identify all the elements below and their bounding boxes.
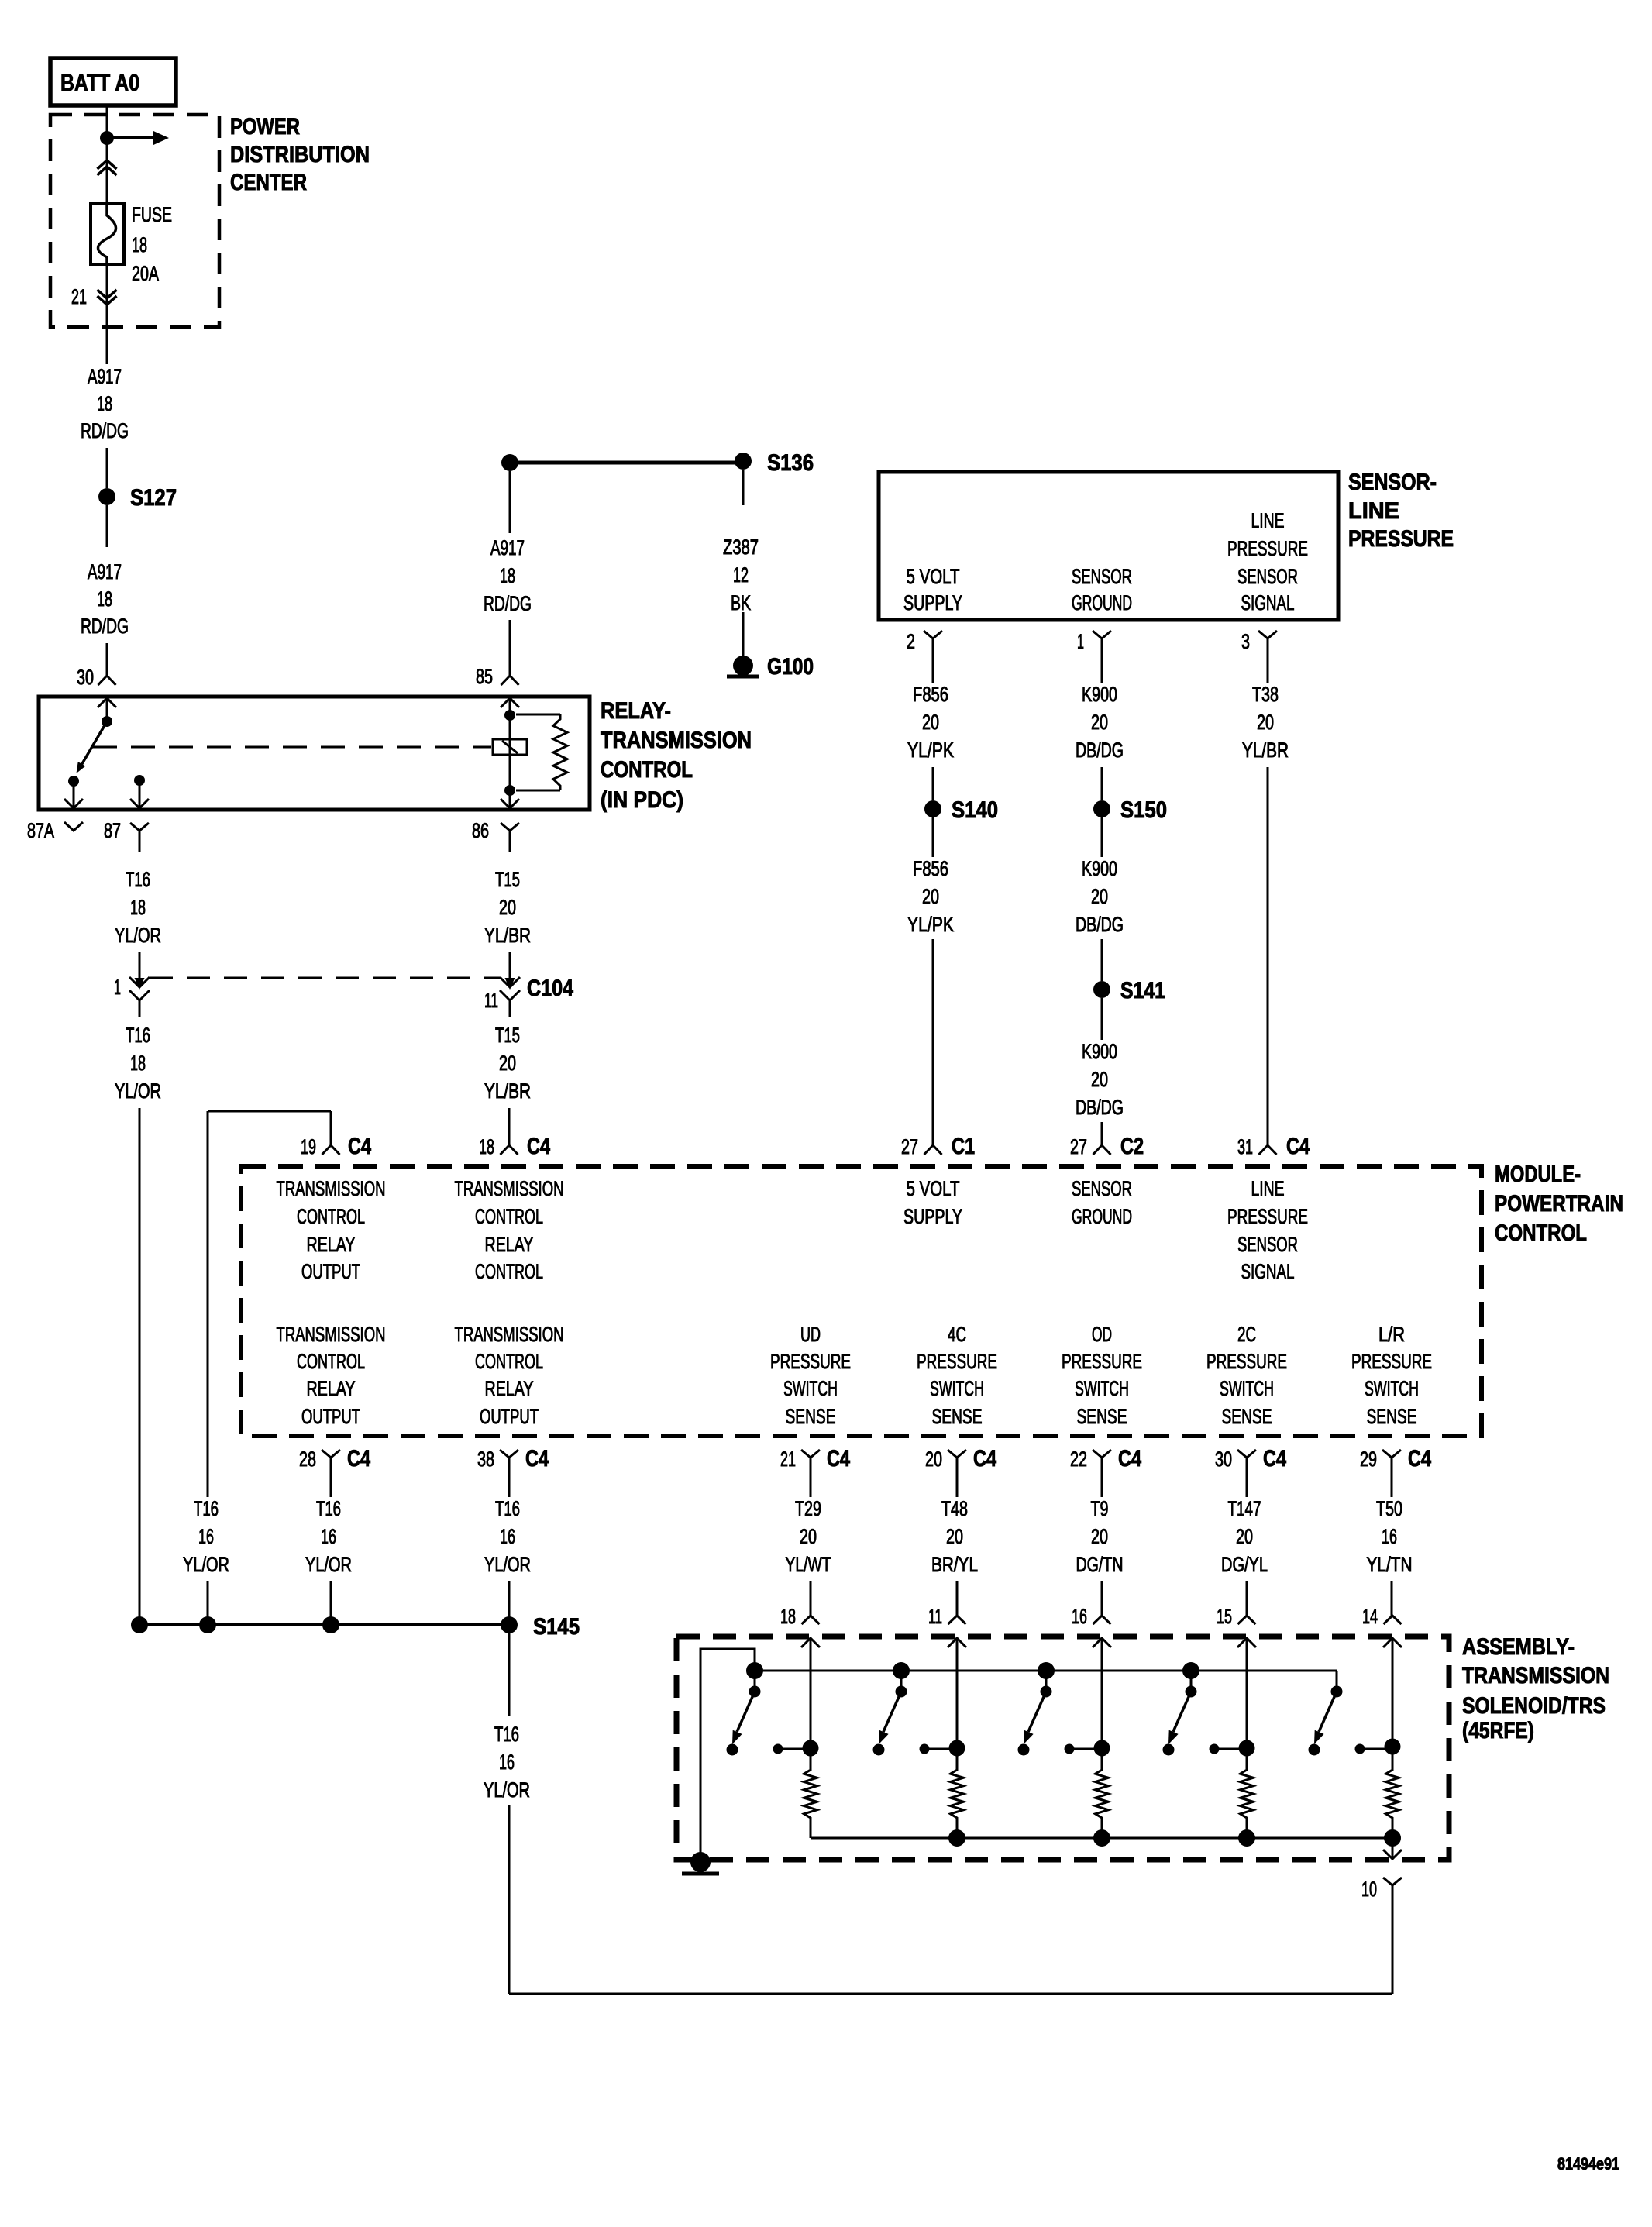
node junction branch wire bbox=[199, 1616, 216, 1633]
svg-text:PRESSURE: PRESSURE bbox=[1351, 1350, 1432, 1373]
svg-text:MODULE-: MODULE- bbox=[1495, 1162, 1581, 1187]
label MODULE-POWERTRAIN CONTROL bbox=[1495, 1162, 1623, 1246]
pin 1 of sensor bbox=[1077, 630, 1111, 659]
svg-text:A917: A917 bbox=[490, 536, 525, 559]
wire F856 20 YL/PK lower bbox=[907, 817, 954, 1145]
svg-text:RELAY: RELAY bbox=[485, 1233, 534, 1256]
svg-text:20: 20 bbox=[1091, 885, 1108, 908]
svg-text:SENSE: SENSE bbox=[1367, 1405, 1417, 1428]
svg-text:LINE: LINE bbox=[1348, 498, 1399, 524]
svg-text:TRANSMISSION: TRANSMISSION bbox=[455, 1177, 564, 1200]
svg-text:F856: F856 bbox=[913, 857, 948, 880]
svg-text:TRANSMISSION: TRANSMISSION bbox=[455, 1323, 564, 1346]
relay coil linkage bbox=[93, 746, 491, 749]
svg-text:PRESSURE: PRESSURE bbox=[1062, 1350, 1142, 1373]
svg-text:RD/DG: RD/DG bbox=[81, 419, 129, 442]
resistor OD switch bbox=[1096, 1748, 1109, 1838]
pin 18 of TRS bbox=[780, 1605, 820, 1628]
relay transmission control box bbox=[39, 697, 590, 810]
pin 87 of relay bbox=[104, 819, 149, 852]
svg-text:CENTER: CENTER bbox=[230, 170, 307, 195]
svg-text:T15: T15 bbox=[495, 1024, 520, 1047]
pin 27 C2 of PCM bbox=[1070, 1134, 1144, 1159]
svg-text:PRESSURE: PRESSURE bbox=[1348, 526, 1454, 552]
label 81494e91 bbox=[1557, 2154, 1619, 2174]
svg-text:5 VOLT: 5 VOLT bbox=[907, 1177, 960, 1200]
svg-text:S136: S136 bbox=[767, 450, 814, 476]
svg-text:LINE: LINE bbox=[1251, 1177, 1285, 1200]
svg-text:20: 20 bbox=[1091, 711, 1108, 734]
pin 28 C4 of PCM bbox=[299, 1446, 370, 1486]
svg-text:PRESSURE: PRESSURE bbox=[1227, 537, 1308, 560]
svg-text:16: 16 bbox=[499, 1750, 515, 1774]
svg-text:CONTROL: CONTROL bbox=[297, 1350, 365, 1373]
svg-text:PRESSURE: PRESSURE bbox=[770, 1350, 851, 1373]
svg-text:BK: BK bbox=[731, 591, 751, 614]
resistor 4C switch bbox=[951, 1748, 964, 1838]
svg-text:F856: F856 bbox=[913, 683, 948, 706]
svg-text:OD: OD bbox=[1092, 1323, 1112, 1346]
svg-text:16: 16 bbox=[1072, 1605, 1087, 1628]
power distribution center box bbox=[50, 115, 219, 327]
svg-text:YL/OR: YL/OR bbox=[484, 1778, 530, 1802]
wire C104 tie bbox=[150, 977, 500, 979]
svg-text:PRESSURE: PRESSURE bbox=[1227, 1205, 1308, 1228]
label ASSEMBLY-TRANSMISSION SOLENOID/TRS (45RFE) bbox=[1462, 1634, 1609, 1743]
svg-text:15: 15 bbox=[1217, 1605, 1232, 1628]
svg-text:16: 16 bbox=[198, 1525, 214, 1548]
pin 11 of TRS bbox=[928, 1605, 966, 1628]
svg-text:CONTROL: CONTROL bbox=[475, 1260, 543, 1283]
label UD pressure switch sense in PCM bbox=[770, 1323, 851, 1428]
wire S136 tie bbox=[510, 461, 743, 465]
relay coil terminal 86 bbox=[501, 785, 519, 808]
svg-text:SIGNAL: SIGNAL bbox=[1241, 1260, 1295, 1283]
node OD switch contact bbox=[1018, 1744, 1030, 1756]
svg-text:(IN PDC): (IN PDC) bbox=[601, 787, 683, 813]
svg-text:OUTPUT: OUTPUT bbox=[301, 1260, 360, 1283]
svg-text:SUPPLY: SUPPLY bbox=[903, 591, 962, 614]
svg-text:YL/OR: YL/OR bbox=[484, 1553, 531, 1576]
relay common terminal 30 bbox=[98, 698, 116, 727]
wire splice tie bbox=[139, 1623, 509, 1626]
svg-text:LINE: LINE bbox=[1251, 509, 1285, 532]
label line pressure sensor signal in PCM bbox=[1227, 1177, 1308, 1283]
switch 4C pressure switch bbox=[879, 1662, 910, 1744]
wire pin 11 into TRS bbox=[948, 1638, 966, 1748]
node bottom bus junction x1797 bbox=[1384, 1829, 1401, 1847]
svg-text:19: 19 bbox=[301, 1135, 316, 1158]
fuse FUSE 18 20A bbox=[91, 204, 124, 264]
svg-text:14: 14 bbox=[1362, 1605, 1378, 1628]
svg-text:T15: T15 bbox=[495, 868, 520, 891]
node junction 87 wire bbox=[131, 1616, 148, 1633]
svg-text:22: 22 bbox=[1070, 1447, 1087, 1471]
svg-text:CONTROL: CONTROL bbox=[475, 1205, 543, 1228]
label 4C pressure switch sense in PCM bbox=[917, 1323, 997, 1428]
pin 27 C1 of PCM bbox=[901, 1134, 975, 1159]
svg-text:T16: T16 bbox=[316, 1497, 341, 1520]
svg-text:C4: C4 bbox=[527, 1134, 550, 1159]
wire K900 20 DB/DG lower bbox=[1076, 998, 1124, 1145]
wire K900 20 DB/DG upper bbox=[1076, 659, 1124, 800]
svg-text:YL/BR: YL/BR bbox=[1242, 738, 1289, 762]
svg-text:SENSOR: SENSOR bbox=[1237, 565, 1298, 588]
svg-text:30: 30 bbox=[77, 666, 94, 689]
svg-text:SENSE: SENSE bbox=[1222, 1405, 1272, 1428]
svg-text:20: 20 bbox=[925, 1447, 942, 1471]
splice S141 bbox=[1093, 978, 1165, 1003]
sensor line pressure box bbox=[879, 472, 1338, 620]
svg-text:PRESSURE: PRESSURE bbox=[1206, 1350, 1287, 1373]
svg-text:SWITCH: SWITCH bbox=[930, 1377, 984, 1400]
svg-text:S140: S140 bbox=[952, 797, 998, 823]
svg-text:18: 18 bbox=[97, 392, 112, 415]
svg-text:27: 27 bbox=[901, 1135, 918, 1158]
wire pin 10 exit bbox=[1383, 1838, 1402, 1859]
svg-text:27: 27 bbox=[1070, 1135, 1087, 1158]
node OD switch output bbox=[1065, 1740, 1110, 1757]
svg-text:SOLENOID/TRS: SOLENOID/TRS bbox=[1462, 1693, 1606, 1719]
wire TRS bottom bus bbox=[811, 1837, 1392, 1840]
svg-text:20: 20 bbox=[922, 885, 939, 908]
svg-text:C4: C4 bbox=[525, 1446, 549, 1471]
svg-text:11: 11 bbox=[928, 1605, 942, 1628]
svg-text:3: 3 bbox=[1241, 630, 1250, 653]
node 2C switch contact bbox=[1163, 1744, 1175, 1756]
svg-text:YL/PK: YL/PK bbox=[907, 738, 954, 762]
wire pin 14 into TRS bbox=[1383, 1638, 1402, 1747]
svg-text:18: 18 bbox=[132, 233, 147, 256]
label transmission control relay output 2 in PCM bbox=[277, 1323, 386, 1428]
label transmission control relay output in PCM bbox=[277, 1177, 386, 1283]
svg-text:T48: T48 bbox=[941, 1497, 968, 1520]
switch UD pressure switch bbox=[732, 1662, 763, 1744]
svg-text:86: 86 bbox=[472, 819, 489, 842]
label LINE PRESSURE SENSOR SIGNAL in sensor bbox=[1227, 509, 1308, 614]
svg-text:28: 28 bbox=[299, 1447, 316, 1471]
svg-text:BR/YL: BR/YL bbox=[931, 1553, 978, 1576]
svg-text:SENSE: SENSE bbox=[932, 1405, 983, 1428]
label 2C pressure switch sense in PCM bbox=[1206, 1323, 1287, 1428]
resistor UD switch bbox=[804, 1748, 817, 1838]
splice S136 bbox=[735, 450, 814, 476]
svg-text:K900: K900 bbox=[1082, 683, 1117, 706]
svg-text:K900: K900 bbox=[1082, 1040, 1117, 1063]
svg-text:SUPPLY: SUPPLY bbox=[903, 1205, 962, 1228]
svg-text:RD/DG: RD/DG bbox=[484, 592, 532, 615]
node L/R switch contact bbox=[1309, 1744, 1320, 1756]
label FUSE 18 20A bbox=[132, 203, 172, 285]
splice S150 bbox=[1093, 797, 1167, 823]
pin 87A stub bbox=[27, 819, 83, 842]
wire pin 16 into TRS bbox=[1093, 1638, 1111, 1748]
svg-text:21: 21 bbox=[71, 285, 87, 308]
svg-text:Z387: Z387 bbox=[723, 535, 759, 559]
wire T38 20 YL/BR bbox=[1242, 659, 1289, 1145]
svg-text:C4: C4 bbox=[1408, 1446, 1431, 1471]
pin 29 C4 of PCM bbox=[1360, 1446, 1431, 1486]
svg-text:TRANSMISSION: TRANSMISSION bbox=[1462, 1663, 1609, 1688]
splice S145 bbox=[501, 1614, 580, 1640]
wire A917 18 RD/DG right bbox=[484, 471, 532, 676]
svg-text:OUTPUT: OUTPUT bbox=[301, 1405, 360, 1428]
svg-text:CONTROL: CONTROL bbox=[601, 757, 693, 783]
switch OD pressure switch bbox=[1024, 1662, 1055, 1744]
pin 20 C4 of PCM bbox=[925, 1446, 996, 1486]
svg-text:20: 20 bbox=[499, 1052, 516, 1075]
svg-text:SENSE: SENSE bbox=[786, 1405, 836, 1428]
svg-text:T16: T16 bbox=[494, 1723, 519, 1746]
svg-text:87A: 87A bbox=[27, 819, 54, 842]
node 4C switch output bbox=[920, 1740, 965, 1757]
wire pin 18 into TRS bbox=[801, 1638, 820, 1748]
svg-text:20: 20 bbox=[946, 1525, 963, 1548]
svg-text:YL/OR: YL/OR bbox=[305, 1553, 352, 1576]
svg-text:16: 16 bbox=[321, 1525, 336, 1548]
svg-text:YL/BR: YL/BR bbox=[484, 924, 531, 947]
svg-text:SWITCH: SWITCH bbox=[783, 1377, 838, 1400]
svg-text:RELAY: RELAY bbox=[485, 1377, 534, 1400]
svg-text:20A: 20A bbox=[132, 262, 159, 285]
node UD switch contact bbox=[727, 1744, 738, 1756]
pin 31 C4 of PCM bbox=[1237, 1134, 1310, 1159]
label OD pressure switch sense in PCM bbox=[1062, 1323, 1142, 1428]
wire pin 15 into TRS bbox=[1237, 1638, 1256, 1748]
switch 2C pressure switch bbox=[1168, 1662, 1199, 1744]
svg-text:SENSOR: SENSOR bbox=[1072, 565, 1132, 588]
svg-text:12: 12 bbox=[733, 563, 749, 587]
svg-text:11: 11 bbox=[484, 989, 498, 1012]
pin 21 C4 of PCM bbox=[780, 1446, 850, 1486]
svg-text:10: 10 bbox=[1361, 1878, 1377, 1901]
wire T147 20 DG/YL bbox=[1221, 1486, 1268, 1616]
svg-text:C4: C4 bbox=[348, 1134, 371, 1159]
label SENSOR GROUND in sensor bbox=[1072, 565, 1132, 614]
wire T48 20 BR/YL bbox=[931, 1486, 978, 1616]
svg-text:PRESSURE: PRESSURE bbox=[917, 1350, 997, 1373]
wire T16 16 YL/OR bbox=[305, 1486, 352, 1625]
powertrain control module box bbox=[241, 1166, 1482, 1436]
svg-text:18: 18 bbox=[500, 564, 515, 587]
pin 21 of PDC bbox=[71, 264, 117, 364]
svg-text:CONTROL: CONTROL bbox=[297, 1205, 365, 1228]
svg-text:POWER: POWER bbox=[230, 114, 300, 139]
svg-text:POWERTRAIN: POWERTRAIN bbox=[1495, 1191, 1623, 1217]
pin 22 C4 of PCM bbox=[1070, 1446, 1141, 1486]
label 5 volt supply in PCM bbox=[903, 1177, 962, 1228]
relay contact 87 bbox=[130, 775, 149, 808]
svg-text:38: 38 bbox=[477, 1447, 494, 1471]
label SENSOR-LINE PRESSURE bbox=[1348, 470, 1454, 552]
svg-text:RELAY: RELAY bbox=[307, 1377, 356, 1400]
wire T16 16 YL/OR to TRS bbox=[484, 1633, 1392, 1994]
connector C104 pin 1 bbox=[114, 976, 150, 1017]
svg-text:CONTROL: CONTROL bbox=[475, 1350, 543, 1373]
svg-text:BATT A0: BATT A0 bbox=[60, 69, 139, 96]
connector chevrons top bbox=[98, 160, 117, 175]
svg-text:T38: T38 bbox=[1252, 683, 1279, 706]
ground G100 bbox=[727, 654, 814, 680]
svg-text:DB/DG: DB/DG bbox=[1076, 1096, 1124, 1119]
svg-text:A917: A917 bbox=[88, 365, 122, 388]
svg-text:G100: G100 bbox=[767, 654, 814, 680]
svg-text:21: 21 bbox=[780, 1447, 796, 1471]
svg-text:T147: T147 bbox=[1228, 1497, 1261, 1520]
svg-text:S141: S141 bbox=[1120, 978, 1165, 1003]
svg-text:DB/DG: DB/DG bbox=[1076, 913, 1124, 936]
pin 16 of TRS bbox=[1072, 1605, 1111, 1628]
svg-text:ASSEMBLY-: ASSEMBLY- bbox=[1462, 1634, 1575, 1660]
svg-text:T29: T29 bbox=[795, 1497, 821, 1520]
wire T16 18 YL/OR lower bbox=[115, 1000, 161, 1625]
label L/R pressure switch sense in PCM bbox=[1351, 1323, 1432, 1428]
svg-text:YL/PK: YL/PK bbox=[907, 913, 954, 936]
svg-text:YL/OR: YL/OR bbox=[115, 1079, 161, 1103]
svg-text:DB/DG: DB/DG bbox=[1076, 738, 1124, 762]
svg-text:DG/TN: DG/TN bbox=[1076, 1553, 1124, 1576]
svg-text:DG/YL: DG/YL bbox=[1221, 1553, 1268, 1576]
svg-text:18: 18 bbox=[780, 1605, 796, 1628]
wire T15 20 YL/BR upper bbox=[484, 868, 531, 979]
svg-text:SENSOR: SENSOR bbox=[1072, 1177, 1132, 1200]
svg-text:S150: S150 bbox=[1120, 797, 1167, 823]
svg-text:S127: S127 bbox=[130, 485, 177, 511]
splice S127 bbox=[98, 485, 177, 511]
svg-text:SENSOR: SENSOR bbox=[1237, 1233, 1298, 1256]
svg-text:UD: UD bbox=[800, 1323, 821, 1346]
svg-text:T16: T16 bbox=[126, 1024, 150, 1047]
svg-text:TRANSMISSION: TRANSMISSION bbox=[601, 728, 752, 753]
svg-text:31: 31 bbox=[1237, 1135, 1253, 1158]
svg-text:16: 16 bbox=[1382, 1525, 1397, 1548]
svg-text:5 VOLT: 5 VOLT bbox=[907, 565, 960, 588]
wire ground bus of TRS bbox=[700, 1649, 1337, 1856]
pin 38 C4 of PCM bbox=[477, 1446, 549, 1486]
pin 30 C4 of PCM bbox=[1215, 1446, 1286, 1486]
relay contact 87A bbox=[64, 776, 83, 808]
wire A917 18 RD/DG lower bbox=[81, 505, 129, 676]
svg-text:S145: S145 bbox=[533, 1614, 580, 1640]
pin 18 C4 of PCM bbox=[479, 1134, 550, 1159]
switch L/R pressure switch bbox=[1314, 1671, 1343, 1744]
svg-text:18: 18 bbox=[130, 896, 146, 919]
pin 85 of relay bbox=[476, 665, 519, 688]
svg-text:20: 20 bbox=[1091, 1068, 1108, 1091]
svg-text:1: 1 bbox=[1077, 630, 1084, 653]
svg-text:C4: C4 bbox=[1263, 1446, 1286, 1471]
node bottom bus junction x1235 bbox=[948, 1829, 965, 1847]
svg-text:YL/WT: YL/WT bbox=[786, 1553, 831, 1576]
pin 14 of TRS bbox=[1362, 1605, 1402, 1628]
svg-text:87: 87 bbox=[104, 819, 121, 842]
svg-text:SIGNAL: SIGNAL bbox=[1241, 591, 1295, 614]
pin 10 of TRS bbox=[1361, 1878, 1402, 1905]
pin 30 of relay bbox=[77, 666, 116, 689]
svg-text:18: 18 bbox=[97, 587, 112, 611]
relay coil terminal 85 bbox=[501, 698, 519, 721]
svg-text:YL/OR: YL/OR bbox=[183, 1553, 229, 1576]
svg-text:20: 20 bbox=[499, 896, 516, 919]
wire T50 16 YL/TN bbox=[1367, 1486, 1413, 1616]
svg-text:T16: T16 bbox=[194, 1497, 219, 1520]
svg-text:C1: C1 bbox=[952, 1134, 975, 1159]
svg-text:RD/DG: RD/DG bbox=[81, 614, 129, 638]
svg-text:SWITCH: SWITCH bbox=[1365, 1377, 1419, 1400]
node bottom bus junction x1609 bbox=[1238, 1829, 1255, 1847]
svg-text:YL/OR: YL/OR bbox=[115, 924, 161, 947]
wire T29 20 YL/WT bbox=[786, 1486, 831, 1616]
pin 15 of TRS bbox=[1217, 1605, 1256, 1628]
wire T15 20 YL/BR lower bbox=[484, 1000, 531, 1145]
svg-text:20: 20 bbox=[922, 711, 939, 734]
resistor 2C switch bbox=[1241, 1748, 1254, 1838]
wire T16 18 YL/OR upper bbox=[115, 868, 161, 979]
relay switch arm bbox=[77, 721, 108, 773]
transmission solenoid TRS box bbox=[676, 1637, 1449, 1860]
svg-text:(45RFE): (45RFE) bbox=[1462, 1718, 1534, 1743]
svg-text:RELAY-: RELAY- bbox=[601, 698, 671, 724]
node L/R switch output bbox=[1355, 1739, 1401, 1755]
svg-text:20: 20 bbox=[800, 1525, 817, 1548]
label transmission control relay output 3 in PCM bbox=[455, 1323, 564, 1428]
svg-text:81494e91: 81494e91 bbox=[1557, 2154, 1619, 2174]
svg-text:4C: 4C bbox=[948, 1323, 966, 1346]
pin 3 of sensor bbox=[1241, 630, 1277, 659]
svg-text:2: 2 bbox=[907, 630, 915, 653]
node junction 28 wire bbox=[322, 1616, 339, 1633]
svg-text:SWITCH: SWITCH bbox=[1075, 1377, 1129, 1400]
svg-text:30: 30 bbox=[1215, 1447, 1232, 1471]
svg-text:TRANSMISSION: TRANSMISSION bbox=[277, 1177, 386, 1200]
svg-text:C4: C4 bbox=[973, 1446, 996, 1471]
label sensor ground in PCM bbox=[1072, 1177, 1132, 1228]
node BATT A0 feed bbox=[50, 58, 176, 105]
svg-text:2C: 2C bbox=[1237, 1323, 1256, 1346]
svg-text:20: 20 bbox=[1236, 1525, 1253, 1548]
svg-text:FUSE: FUSE bbox=[132, 203, 172, 226]
pin 2 of sensor bbox=[907, 630, 942, 659]
wire T16 16 YL/OR bbox=[484, 1486, 531, 1625]
label transmission control relay control in PCM bbox=[455, 1177, 564, 1283]
svg-text:C4: C4 bbox=[827, 1446, 850, 1471]
svg-text:A917: A917 bbox=[88, 560, 122, 583]
svg-text:C104: C104 bbox=[527, 976, 573, 1001]
svg-text:SENSE: SENSE bbox=[1077, 1405, 1127, 1428]
svg-text:85: 85 bbox=[476, 665, 493, 688]
relay coil resistor bbox=[516, 714, 567, 790]
svg-text:YL/TN: YL/TN bbox=[1367, 1553, 1413, 1576]
svg-text:SENSOR-: SENSOR- bbox=[1348, 470, 1437, 495]
label RELAY-TRANSMISSION CONTROL (IN PDC) bbox=[601, 698, 752, 813]
splice S140 bbox=[924, 797, 998, 823]
svg-text:CONTROL: CONTROL bbox=[1495, 1220, 1587, 1246]
svg-text:C4: C4 bbox=[1118, 1446, 1141, 1471]
resistor L/R switch bbox=[1386, 1747, 1399, 1838]
svg-text:T16: T16 bbox=[495, 1497, 520, 1520]
svg-text:RELAY: RELAY bbox=[307, 1233, 356, 1256]
wire A917 18 RD/DG upper bbox=[81, 365, 129, 488]
svg-text:TRANSMISSION: TRANSMISSION bbox=[277, 1323, 386, 1346]
svg-text:GROUND: GROUND bbox=[1072, 591, 1132, 614]
svg-text:20: 20 bbox=[1091, 1525, 1108, 1548]
node bottom bus junction x1422 bbox=[1093, 1829, 1110, 1847]
relay coil bbox=[493, 715, 527, 790]
svg-text:YL/BR: YL/BR bbox=[484, 1079, 531, 1103]
node A917 branch top bbox=[501, 454, 518, 471]
node 2C switch output bbox=[1210, 1740, 1255, 1757]
svg-text:K900: K900 bbox=[1082, 857, 1117, 880]
